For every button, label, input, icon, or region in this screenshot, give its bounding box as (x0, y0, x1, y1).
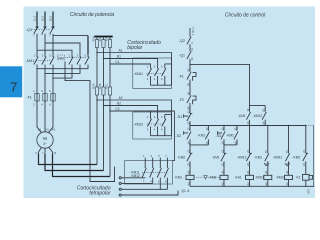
KM12 linkage (147, 123, 165, 125)
motor rotor leads (39, 147, 53, 154)
wire col C split (250, 105, 266, 107)
svg-text:Q1. 6: Q1. 6 (182, 189, 190, 193)
wire terminal a to pole1 (121, 177, 145, 179)
breaker aux Q2 (187, 37, 191, 52)
svg-text:A1: A1 (264, 170, 268, 174)
resistor R1C (108, 40, 111, 48)
svg-text:U1: U1 (38, 128, 42, 132)
contactor KM2 pole 2 (77, 55, 81, 67)
wire F1 to motor 2 (44, 101, 46, 132)
resistor R1B (102, 40, 105, 48)
wire tap B1 (104, 59, 158, 69)
svg-text:-Q1: -Q1 (26, 28, 32, 32)
tetrapolar pole 4 (164, 158, 168, 190)
svg-text:1L1: 1L1 (33, 16, 37, 21)
tetrapolar terminal a (119, 177, 121, 179)
interlock contact KM1 NC (221, 145, 227, 173)
svg-text:-Q2: -Q2 (179, 39, 185, 43)
svg-text:A1: A1 (186, 170, 190, 174)
timer relay F2 (303, 174, 309, 180)
node bottom KM12 (288, 186, 289, 187)
node pole3 join (160, 189, 161, 190)
svg-text:A2: A2 (285, 182, 289, 186)
svg-text:A1: A1 (246, 170, 250, 174)
F2 trip symbol (193, 96, 196, 104)
stop button S1 (184, 113, 193, 125)
KM11 pole 3 (162, 64, 172, 85)
svg-text:KM2: KM2 (58, 56, 64, 60)
svg-text:-KM12: -KM12 (130, 174, 140, 178)
overload contact F1 (187, 72, 191, 96)
svg-text:B2: B2 (117, 102, 121, 106)
resistor R2A (95, 87, 98, 95)
wire F1 to motor 3 (49, 101, 53, 132)
contactor KM1 pole 1 (34, 55, 38, 67)
contactor KM1 pole 2 (42, 55, 46, 67)
svg-text:-R1A: -R1A (92, 36, 96, 42)
wire coil KM2 (223, 173, 225, 187)
svg-text:-KM2: -KM2 (209, 176, 217, 180)
contactor KM1 linkage (36, 60, 52, 62)
wire KM2 out crossed to phase3 (53, 67, 72, 78)
diagram panel (24, 7, 316, 199)
start button S2 (184, 126, 192, 145)
svg-text:A2: A2 (186, 182, 190, 186)
svg-text:A1: A1 (285, 170, 289, 174)
svg-text:-R2C: -R2C (105, 83, 109, 89)
svg-text:C1: C1 (115, 60, 119, 64)
contactor KM12 box (133, 112, 172, 139)
svg-text:M: M (43, 136, 47, 141)
contactor KM11 box (133, 58, 172, 89)
svg-text:bipolar: bipolar (127, 45, 142, 51)
seal-in contact KM1 (205, 126, 209, 145)
KM11 short bus (151, 84, 172, 86)
start button S3 (218, 126, 226, 145)
motor M1 (37, 132, 53, 148)
svg-text:A2: A2 (220, 182, 224, 186)
svg-text:-S2: -S2 (176, 134, 182, 138)
svg-text:M: M (54, 151, 56, 155)
supply terminal L3 (52, 12, 54, 26)
wire terminal c to poles 3 4 (121, 188, 167, 190)
KM12 pole 1 (147, 111, 151, 136)
node rail col D (267, 125, 268, 126)
node phase3 loop join (52, 77, 53, 78)
resistor column 2 (103, 37, 105, 171)
breaker Q1 linkage (32, 29, 51, 31)
wire branch to col C (190, 64, 250, 105)
contactor KM1 pole 3 (50, 55, 54, 67)
node bottom KA1 (249, 186, 250, 187)
supply terminal L2 (44, 12, 46, 26)
timer symbol KM1 (264, 163, 269, 165)
node rail col E (288, 125, 289, 126)
svg-text:-KM11: -KM11 (134, 72, 143, 76)
KM12 pole 3 (162, 114, 172, 135)
wire tap A2 (97, 100, 172, 136)
svg-text:-F2: -F2 (296, 176, 301, 180)
coil KM1 (186, 175, 194, 179)
wire S2 KM1 join (190, 144, 208, 146)
wire tap C1 (110, 64, 151, 69)
svg-text:-KM1: -KM1 (255, 156, 263, 160)
wire phase2 to KM2 drop (45, 43, 80, 55)
svg-text:-F1: -F1 (179, 74, 184, 78)
resistor column 3 (109, 37, 111, 177)
node tap A1 (96, 52, 97, 53)
svg-text:7: 7 (10, 80, 17, 95)
coil KM11 (264, 175, 272, 179)
KM12 short bus (151, 135, 172, 137)
breaker aux Q1 contact (187, 51, 191, 72)
svg-text:A2: A2 (246, 182, 250, 186)
wire S3 KM2 join (224, 144, 237, 146)
svg-text:1 Q1.2: 1 Q1.2 (191, 27, 195, 35)
mechanical interlock dashes (194, 176, 220, 178)
svg-text:-R1B: -R1B (98, 36, 102, 42)
svg-text:tetrapolar: tetrapolar (89, 190, 110, 196)
resistor star bar (94, 36, 112, 38)
wire riser to tetrapolar (172, 111, 174, 161)
svg-text:-R2A: -R2A (92, 83, 96, 89)
svg-text:K: K (36, 151, 38, 155)
tetrapolar pole 2 (150, 158, 154, 184)
wire tap B2 (104, 106, 158, 120)
svg-text:-KM12: -KM12 (253, 114, 263, 118)
node bottom F2 (305, 186, 306, 187)
overload F1 heater 2 (43, 94, 47, 102)
svg-text:A1: A1 (119, 49, 123, 53)
svg-text:3L2: 3L2 (41, 16, 45, 21)
node tap C2 (109, 110, 110, 111)
svg-text:-S1: -S1 (177, 115, 183, 119)
F2 bracket (309, 175, 313, 179)
wire tap A1 (97, 53, 172, 86)
node bottom KM2 (223, 186, 224, 187)
control rail (190, 125, 306, 127)
svg-text:-KM1: -KM1 (212, 156, 220, 160)
wire coil KM1 (189, 173, 191, 187)
node rail col F (305, 125, 306, 126)
node branch (189, 64, 190, 65)
svg-text:-KM1: -KM1 (175, 176, 183, 180)
node phase1 loop join (36, 68, 37, 69)
wire KM2 out crossed to phase2 (45, 67, 80, 74)
svg-text:A1: A1 (220, 170, 224, 174)
tetrapolar pole 1 (142, 158, 146, 178)
node rail col B (223, 125, 224, 126)
svg-text:3~: 3~ (43, 142, 47, 146)
resistor R2B (102, 87, 105, 95)
wire coil KA1 (249, 173, 251, 187)
bottom rail (190, 185, 314, 187)
svg-text:B1: B1 (117, 55, 121, 59)
node tap B2 (103, 105, 104, 106)
breaker Q1 pole 1 (34, 26, 38, 55)
node bottom KM11 (267, 186, 268, 187)
svg-text:-KM1: -KM1 (198, 134, 206, 138)
svg-text:-KM12: -KM12 (276, 176, 286, 180)
svg-text:-KA1: -KA1 (235, 176, 242, 180)
aux contact KM12 col C (262, 106, 266, 126)
svg-text:A2: A2 (119, 96, 123, 100)
wire coil KM11 (267, 173, 269, 187)
mechanical interlock symbol (204, 176, 208, 180)
tetrapolar box (125, 161, 173, 184)
right edge wire (313, 126, 315, 187)
KM11 pole 1 (147, 68, 151, 85)
breaker Q1 pole 2 (42, 26, 46, 55)
timed contact KM11 (285, 126, 289, 173)
control rail dashed end (306, 125, 314, 127)
tetrapolar terminal d (119, 194, 121, 196)
tetrapolar linkage (142, 172, 167, 174)
seal-in contact KM2 (234, 126, 238, 145)
coil KM12 (285, 175, 293, 179)
coil KA1 (246, 175, 254, 179)
svg-text:-KM12: -KM12 (237, 156, 247, 160)
node rail main (189, 125, 190, 126)
wire fourth tap to tetrapolar (65, 62, 115, 182)
svg-text:-KM2: -KM2 (226, 134, 234, 138)
rotor wire K (39, 154, 98, 165)
wire terminal d reference (121, 191, 178, 196)
wire F2 down (305, 180, 307, 186)
resistor R2C (108, 87, 111, 95)
svg-text:-KM1: -KM1 (26, 59, 35, 63)
node join pair2 (223, 144, 224, 145)
svg-text:6T3: 6T3 (307, 188, 311, 193)
svg-text:5L3: 5L3 (49, 16, 53, 21)
overload contact F2 (187, 95, 191, 113)
svg-text:C2: C2 (115, 107, 119, 111)
rotor wire M (53, 154, 111, 177)
contact KM2 NC col F (303, 126, 309, 175)
overload F1 heater 1 (35, 94, 39, 102)
coil KM2 (220, 175, 228, 179)
breaker Q1 pole 3 (50, 26, 54, 55)
KM11 linkage (147, 73, 165, 75)
svg-text:-F1: -F1 (27, 96, 32, 100)
svg-text:-KM2: -KM2 (178, 156, 186, 160)
svg-text:-KM1: -KM1 (238, 114, 246, 118)
wire tap C2 (110, 110, 175, 112)
overload F1 heater 3 (51, 94, 55, 102)
contactor KM2 linkage (65, 56, 86, 58)
svg-text:-F2: -F2 (179, 98, 184, 102)
contact KM12 NC col C (246, 126, 252, 173)
wire terminal b to pole2 (121, 182, 152, 184)
node col C rail (249, 125, 250, 126)
svg-text:-R2B: -R2B (98, 83, 102, 89)
svg-text:Circuito de control: Circuito de control (225, 13, 266, 19)
svg-text:-S3: -S3 (216, 134, 222, 138)
tetrapolar pole 3 (157, 158, 161, 190)
svg-text:W1: W1 (52, 128, 56, 132)
timed contact KM1 (265, 126, 269, 173)
interlock contact KM2 NC (187, 145, 193, 173)
wire KM1 out phase3 down (52, 67, 54, 101)
chapter tab 7 (0, 66, 22, 97)
node tap A2 (96, 99, 97, 100)
timer symbol KM11 (285, 163, 290, 165)
node join pair1 (189, 144, 190, 145)
F1 trip symbol (193, 73, 196, 81)
wire coil KM12 (288, 173, 290, 187)
contactor KM2 pole 1 (69, 55, 73, 67)
wire KM2 out crossed to phase1 (37, 67, 88, 69)
tetrapolar terminal b (119, 182, 121, 184)
supply terminal L1 (36, 12, 38, 26)
contactor KM2 label box (58, 55, 65, 60)
wire phase1 to KM2 drop (37, 50, 72, 54)
node tap B1 (103, 58, 104, 59)
svg-text:-Q1: -Q1 (179, 54, 185, 58)
KM12 pole 2 (155, 119, 159, 136)
node tap C1 (109, 63, 110, 64)
KM11 pole 2 (155, 68, 159, 85)
control spine top (189, 28, 191, 37)
svg-text:A2: A2 (264, 182, 268, 186)
wire KM1 out phase2 down (44, 67, 46, 101)
svg-text:-KM12: -KM12 (134, 123, 144, 127)
wire F1 to motor 1 (37, 101, 41, 132)
node split colC (249, 105, 250, 106)
svg-text:-KM11: -KM11 (255, 176, 264, 180)
contactor KM2 pole 3 (85, 55, 89, 67)
wire phase3 to KM2 drop (53, 35, 88, 37)
node phase2 loop join (44, 73, 45, 74)
resistor column 1 (96, 37, 98, 165)
rotor wire L (45, 154, 104, 171)
svg-text:-R1C: -R1C (105, 36, 109, 42)
svg-text:V1: V1 (46, 128, 50, 132)
tetrapolar terminal c (119, 188, 121, 190)
resistor R1A (95, 40, 98, 48)
svg-text:Circuito de potencia: Circuito de potencia (70, 12, 114, 18)
wire KM1 out phase1 down (36, 67, 38, 101)
svg-text:-KM11: -KM11 (273, 156, 282, 160)
aux contact KM1 col C (246, 106, 250, 126)
svg-text:-KM2: -KM2 (293, 156, 301, 160)
